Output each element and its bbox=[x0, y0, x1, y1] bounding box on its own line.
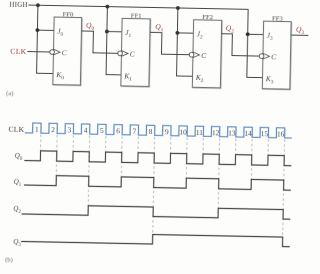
dashed edge line pulse 5 bbox=[104, 136, 107, 163]
wire HIGH drop to FF1 bbox=[106, 7, 122, 75]
svg-text:HIGH: HIGH bbox=[9, 2, 28, 9]
junction at J3 bbox=[246, 32, 250, 36]
wire J3 input bbox=[248, 33, 264, 35]
clock bubble FF0 bbox=[50, 50, 55, 55]
dashed edge line pulse 10 bbox=[185, 137, 188, 188]
dashed edge line pulse 15 bbox=[267, 139, 270, 166]
wire Q2 to FF3 clock bbox=[221, 34, 260, 56]
svg-text:12: 12 bbox=[212, 128, 220, 137]
svg-text:4: 4 bbox=[84, 126, 88, 135]
Q3 waveform bbox=[21, 232, 290, 247]
clock bubble FF3 bbox=[259, 54, 264, 59]
dashed edge line pulse 7 bbox=[137, 137, 140, 164]
dashed edge line pulse 9 bbox=[169, 137, 172, 164]
flip-flop FF1 body bbox=[122, 19, 151, 87]
svg-text:(b): (b) bbox=[5, 257, 13, 264]
wire Q0 to FF1 clock bbox=[81, 31, 118, 53]
svg-text:11: 11 bbox=[196, 128, 204, 137]
svg-text:10: 10 bbox=[179, 127, 187, 136]
svg-text:FF3: FF3 bbox=[272, 15, 283, 22]
junction on HIGH rail at FF0 bbox=[36, 3, 40, 7]
dashed edge line pulse 14 bbox=[250, 139, 253, 190]
svg-text:13: 13 bbox=[228, 128, 236, 137]
wire J1 input bbox=[107, 30, 122, 32]
flip-flop FF3 body bbox=[263, 22, 292, 90]
svg-text:2: 2 bbox=[51, 125, 55, 134]
svg-text:3: 3 bbox=[67, 125, 71, 134]
dashed edge line pulse 1 bbox=[39, 135, 42, 162]
wire HIGH drop to FF3 bbox=[247, 9, 264, 77]
dashed edge line pulse 6 bbox=[120, 136, 123, 187]
dynamic clock wedge FF2 bbox=[193, 52, 200, 58]
wire J0 input bbox=[37, 29, 53, 31]
svg-text:14: 14 bbox=[244, 129, 252, 138]
svg-text:15: 15 bbox=[261, 129, 269, 138]
svg-text:9: 9 bbox=[165, 127, 169, 136]
dynamic clock wedge FF1 bbox=[121, 50, 128, 56]
flip-flop FF2 body bbox=[193, 21, 222, 89]
wire Q1 to FF2 clock bbox=[149, 32, 189, 54]
svg-text:FF0: FF0 bbox=[63, 11, 74, 18]
dashed edge line pulse 2 bbox=[55, 135, 58, 186]
wire HIGH drop to FF0 bbox=[37, 5, 55, 73]
dashed edge line pulse 3 bbox=[72, 135, 75, 162]
svg-text:8: 8 bbox=[149, 127, 153, 136]
clock bubble FF1 bbox=[118, 51, 123, 56]
wire HIGH rail bbox=[28, 5, 248, 9]
junction on HIGH rail at FF1 bbox=[105, 5, 109, 9]
svg-text:CLK: CLK bbox=[10, 47, 27, 56]
flip-flop FF0 body bbox=[54, 18, 83, 86]
dashed edge line pulse 12 bbox=[218, 138, 220, 218]
svg-text:6: 6 bbox=[116, 126, 120, 135]
junction on HIGH rail at FF2 bbox=[176, 6, 180, 10]
svg-text:5: 5 bbox=[100, 126, 104, 135]
wire J2 input bbox=[177, 32, 193, 34]
junction at J1 bbox=[105, 30, 109, 34]
wire Q3 output bbox=[291, 34, 308, 36]
Q1 waveform bbox=[24, 175, 291, 190]
dashed edge line pulse 8 bbox=[153, 137, 155, 245]
Q0 waveform bbox=[24, 151, 291, 166]
CLK pulse numbers 1-16 bbox=[35, 125, 285, 139]
wire CLK to FF0 bbox=[27, 51, 49, 53]
dashed edge line pulse 16 bbox=[282, 139, 284, 247]
dynamic clock wedge FF0 bbox=[53, 49, 60, 55]
svg-text:16: 16 bbox=[277, 129, 285, 138]
svg-text:FF2: FF2 bbox=[202, 14, 213, 21]
dashed edge line pulse 11 bbox=[202, 138, 205, 165]
Q2 waveform bbox=[22, 204, 291, 219]
junction at J0 bbox=[35, 28, 39, 32]
svg-text:CLK: CLK bbox=[8, 125, 24, 134]
svg-text:(a): (a) bbox=[6, 90, 13, 97]
svg-text:7: 7 bbox=[132, 127, 136, 136]
dashed edge line pulse 13 bbox=[234, 138, 237, 165]
dashed edge line pulse 4 bbox=[88, 136, 90, 216]
wire HIGH drop to FF2 bbox=[177, 8, 194, 76]
dynamic clock wedge FF3 bbox=[263, 53, 270, 59]
svg-text:1: 1 bbox=[35, 125, 39, 134]
clock bubble FF2 bbox=[189, 52, 194, 57]
junction at J2 bbox=[175, 31, 179, 35]
svg-text:FF1: FF1 bbox=[131, 13, 142, 20]
CLK waveform bbox=[25, 123, 292, 138]
